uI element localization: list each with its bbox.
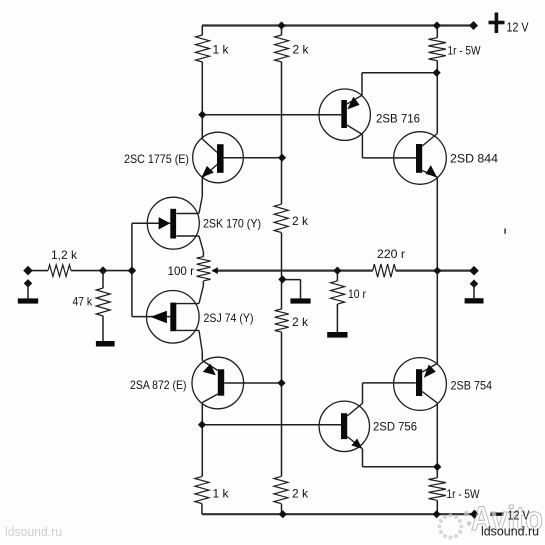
svg-text:2SD 756: 2SD 756 [373, 420, 417, 434]
svg-text:2SC 1775 (E): 2SC 1775 (E) [124, 152, 189, 166]
svg-text:2SB 754: 2SB 754 [451, 379, 493, 393]
svg-text:12 V: 12 V [507, 21, 530, 35]
svg-text:47 k: 47 k [73, 295, 93, 309]
svg-text:2 k: 2 k [293, 43, 310, 57]
svg-text:ldsound.ru: ldsound.ru [481, 525, 539, 539]
svg-text:ldsound.ru: ldsound.ru [5, 525, 62, 539]
svg-text:2 k: 2 k [292, 487, 309, 501]
svg-text:12 V: 12 V [508, 509, 531, 523]
svg-text:2SJ 74 (Y): 2SJ 74 (Y) [204, 311, 254, 325]
svg-text:1,2 k: 1,2 k [51, 248, 78, 262]
svg-text:2SA 872 (E): 2SA 872 (E) [130, 378, 187, 392]
svg-text:10 r: 10 r [348, 287, 366, 301]
svg-text:2SB 716: 2SB 716 [376, 112, 420, 126]
svg-text:2 k: 2 k [292, 214, 309, 228]
svg-text:2SD 844: 2SD 844 [450, 152, 498, 166]
svg-text:1 k: 1 k [213, 43, 230, 57]
svg-text:220 r: 220 r [377, 247, 405, 261]
svg-text:2 k: 2 k [292, 315, 309, 329]
svg-text:2SK 170 (Y): 2SK 170 (Y) [203, 217, 261, 231]
svg-text:1r - 5W: 1r - 5W [447, 487, 481, 501]
svg-text:1 k: 1 k [213, 487, 230, 501]
svg-text:100 r: 100 r [168, 264, 195, 278]
svg-text:1r - 5W: 1r - 5W [448, 44, 482, 58]
